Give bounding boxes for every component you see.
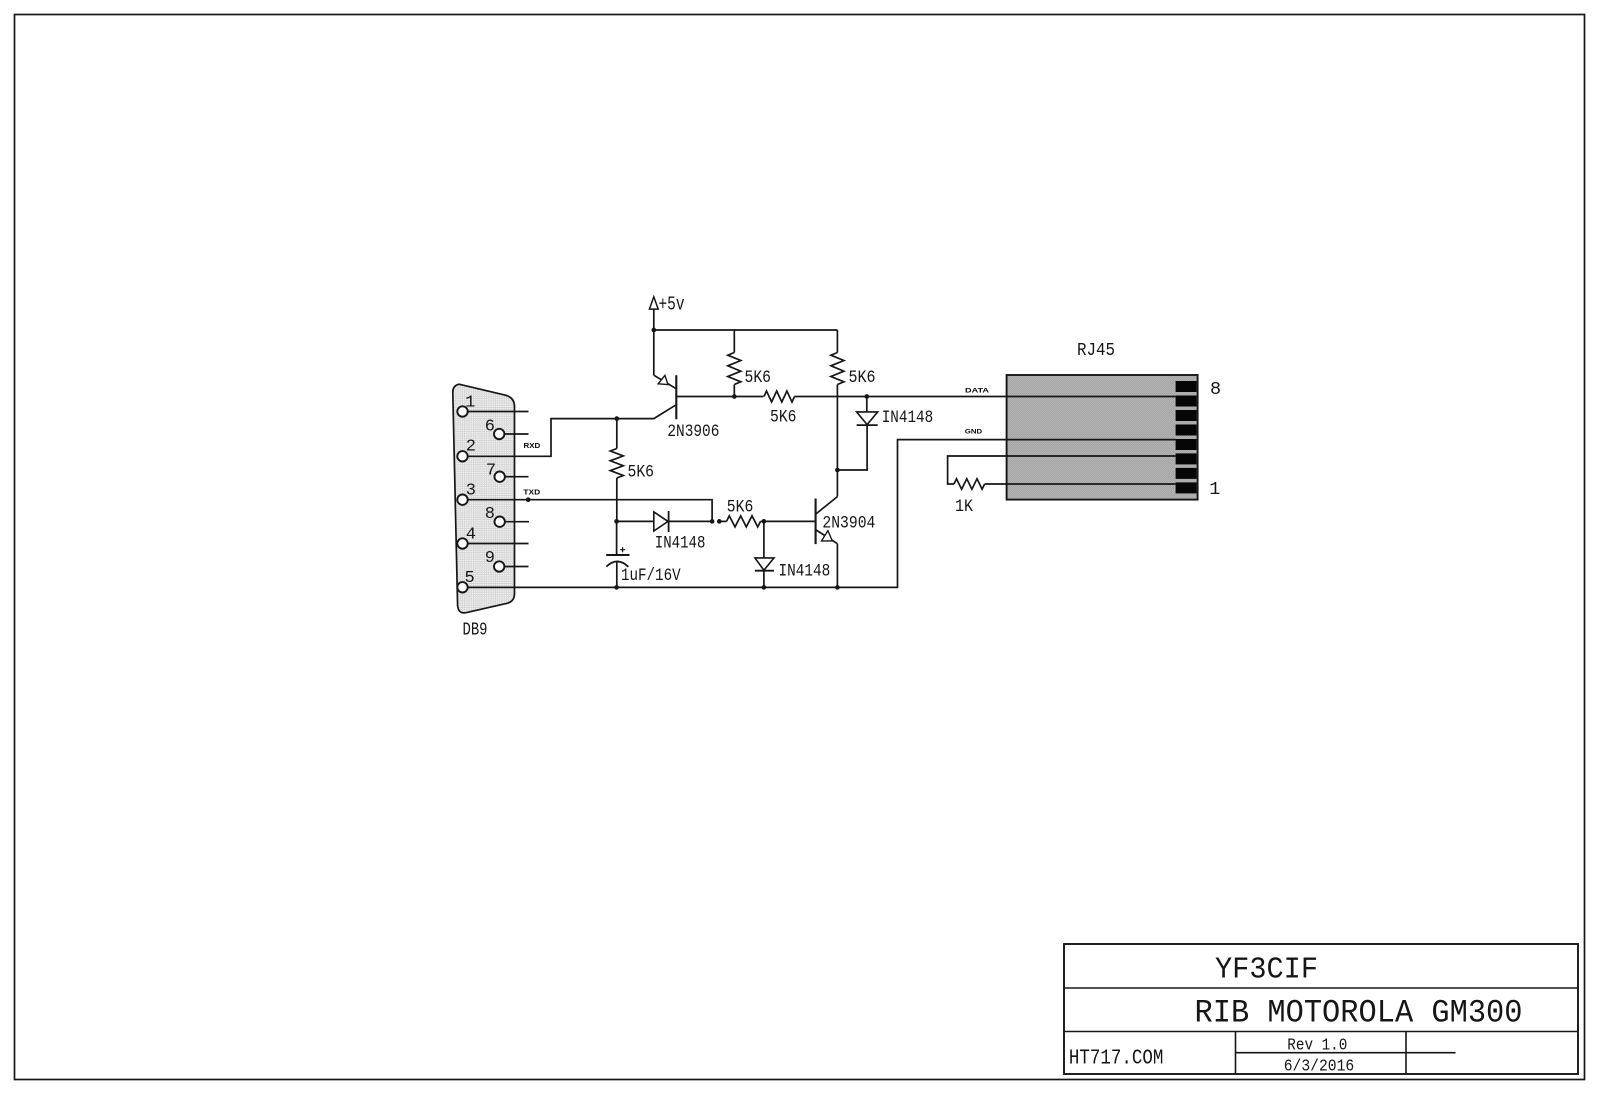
svg-text:1: 1 [1209, 479, 1220, 500]
svg-text:GND: GND [965, 429, 983, 436]
RJ45 pin contact 2 [1176, 468, 1197, 479]
svg-text:5: 5 [464, 569, 474, 588]
resistor R4 5K6 (horizontal, base of Q1 to DATA) [764, 391, 795, 402]
junction Q2 emitter / GND wire [835, 585, 840, 590]
wire DATA inside RJ45 to pin contact [1007, 396, 1176, 398]
svg-text:DB9: DB9 [463, 620, 488, 641]
svg-text:+5v: +5v [659, 294, 685, 316]
wire Q2 emitter to GND wire [836, 544, 838, 588]
svg-text:8: 8 [485, 505, 495, 524]
RJ45 pin contact 3 [1176, 453, 1197, 464]
RJ45 pin contact 7 [1176, 396, 1197, 407]
junction +5v rail / 2N3906 emitter [651, 328, 656, 333]
svg-text:RJ45: RJ45 [1077, 340, 1115, 361]
junction R1 / D1 / C1 [614, 519, 619, 524]
transistor Q1 2N3906 PNP [654, 375, 677, 419]
svg-text:3: 3 [466, 481, 476, 500]
diode D3 IN4148 (vertical at Q2 base) [755, 521, 774, 587]
junction RXD / R1 top [614, 416, 619, 421]
svg-text:5K6: 5K6 [849, 368, 876, 388]
wire +5v rail [654, 330, 838, 375]
RJ45 pin contact 5 [1176, 425, 1197, 436]
svg-text:1: 1 [465, 394, 475, 413]
junction R2 bottom / base wire [732, 394, 737, 399]
title block [1064, 944, 1578, 1077]
resistor R6 1K [954, 479, 985, 489]
connector J2 RJ45 body [1007, 375, 1198, 500]
DB9 pin 4 [457, 525, 528, 548]
svg-text:RIB MOTOROLA GM300: RIB MOTOROLA GM300 [1195, 995, 1523, 1032]
junction TXD / D1 cathode (double dot) [710, 519, 715, 524]
svg-text:2N3906: 2N3906 [667, 422, 719, 442]
DB9 pin 9 [485, 549, 529, 572]
svg-text:Rev 1.0: Rev 1.0 [1287, 1037, 1347, 1056]
wire GND inside RJ45 to pin contact [1007, 439, 1176, 441]
svg-text:IN4148: IN4148 [779, 562, 831, 582]
resistor R5 5K6 (horizontal, TXD to Q2 base) [719, 516, 764, 527]
svg-text:8: 8 [1210, 379, 1221, 400]
svg-text:1uF/16V: 1uF/16V [621, 566, 681, 586]
svg-text:TXD: TXD [523, 487, 540, 496]
RJ45 pin contact 4 [1176, 439, 1197, 450]
svg-text:6/3/2016: 6/3/2016 [1284, 1058, 1355, 1077]
RJ45 pin contact 6 [1176, 410, 1197, 421]
wire Q2 collector to R3/D2 node [836, 470, 838, 497]
svg-text:2: 2 [466, 438, 476, 457]
connector J1 DB9 shell [453, 384, 515, 613]
junction R5 / D3 / Q2 base [762, 519, 767, 524]
svg-text:4: 4 [466, 525, 476, 544]
wire loop upper: RJ45 pin to 1K [948, 456, 1176, 484]
svg-text:7: 7 [486, 461, 496, 480]
wire RXD: DB9 pin2 to 2N3906 collector [468, 419, 655, 457]
junction C1 / GND wire [614, 585, 619, 590]
svg-text:YF3CIF: YF3CIF [1215, 953, 1318, 988]
DB9 pin 3 [457, 481, 476, 505]
DB9 pin 2 [457, 438, 476, 462]
capacitor C1 1uF/16V (polarized) [606, 521, 629, 587]
svg-text:1K: 1K [955, 497, 973, 517]
svg-text:IN4148: IN4148 [882, 408, 934, 428]
svg-text:5K6: 5K6 [727, 497, 754, 517]
svg-text:IN4148: IN4148 [655, 534, 706, 554]
svg-text:5K6: 5K6 [628, 462, 655, 482]
svg-text:5K6: 5K6 [770, 408, 797, 428]
diode D1 IN4148 (horizontal) [617, 511, 713, 532]
DB9 pin 6 [485, 418, 529, 440]
junction TXD stub [526, 497, 531, 502]
svg-text:5K6: 5K6 [745, 368, 772, 388]
RJ45 pin contact 1 [1176, 482, 1197, 493]
RJ45 pin contact 8 [1176, 381, 1197, 392]
resistor R2 5K6 (middle vertical) [728, 330, 741, 397]
power +5v symbol [649, 294, 684, 331]
svg-text:6: 6 [485, 418, 495, 437]
svg-text:DATA: DATA [965, 388, 989, 395]
transistor Q2 2N3904 NPN [816, 497, 838, 544]
wire 2N3906 base to R2/R4 node [676, 396, 763, 398]
resistor R1 5K6 (left vertical) [610, 419, 623, 522]
DB9 pin 1 [457, 394, 528, 417]
svg-text:2N3904: 2N3904 [822, 513, 875, 533]
wire DATA net: R4 to RJ45 pin [795, 396, 1176, 398]
junction DATA / D2 anode [864, 394, 869, 399]
DB9 pin 8 [485, 505, 529, 527]
resistor R3 5K6 (right vertical) [831, 330, 844, 470]
wire Q2 base to R5/D3 node [764, 520, 816, 522]
svg-text:RXD: RXD [524, 441, 541, 450]
diode D2 IN4148 (vertical at DATA node) [837, 397, 877, 471]
DB9 pin 5 [457, 569, 474, 592]
svg-text:HT717.COM: HT717.COM [1069, 1048, 1164, 1071]
junction D3 / GND wire [762, 585, 767, 590]
wire R6 to RJ45 pin contact [985, 483, 1176, 485]
junction R3 / D2 / Q2 collector [835, 468, 840, 473]
DB9 pin 7 [486, 461, 529, 482]
wire GND net: DB9 pin5 along bottom, up right side to RJ45 [468, 440, 1176, 588]
wire TXD: DB9 pin3 right and down to D1/R5 node [468, 500, 712, 522]
svg-text:9: 9 [485, 549, 495, 568]
